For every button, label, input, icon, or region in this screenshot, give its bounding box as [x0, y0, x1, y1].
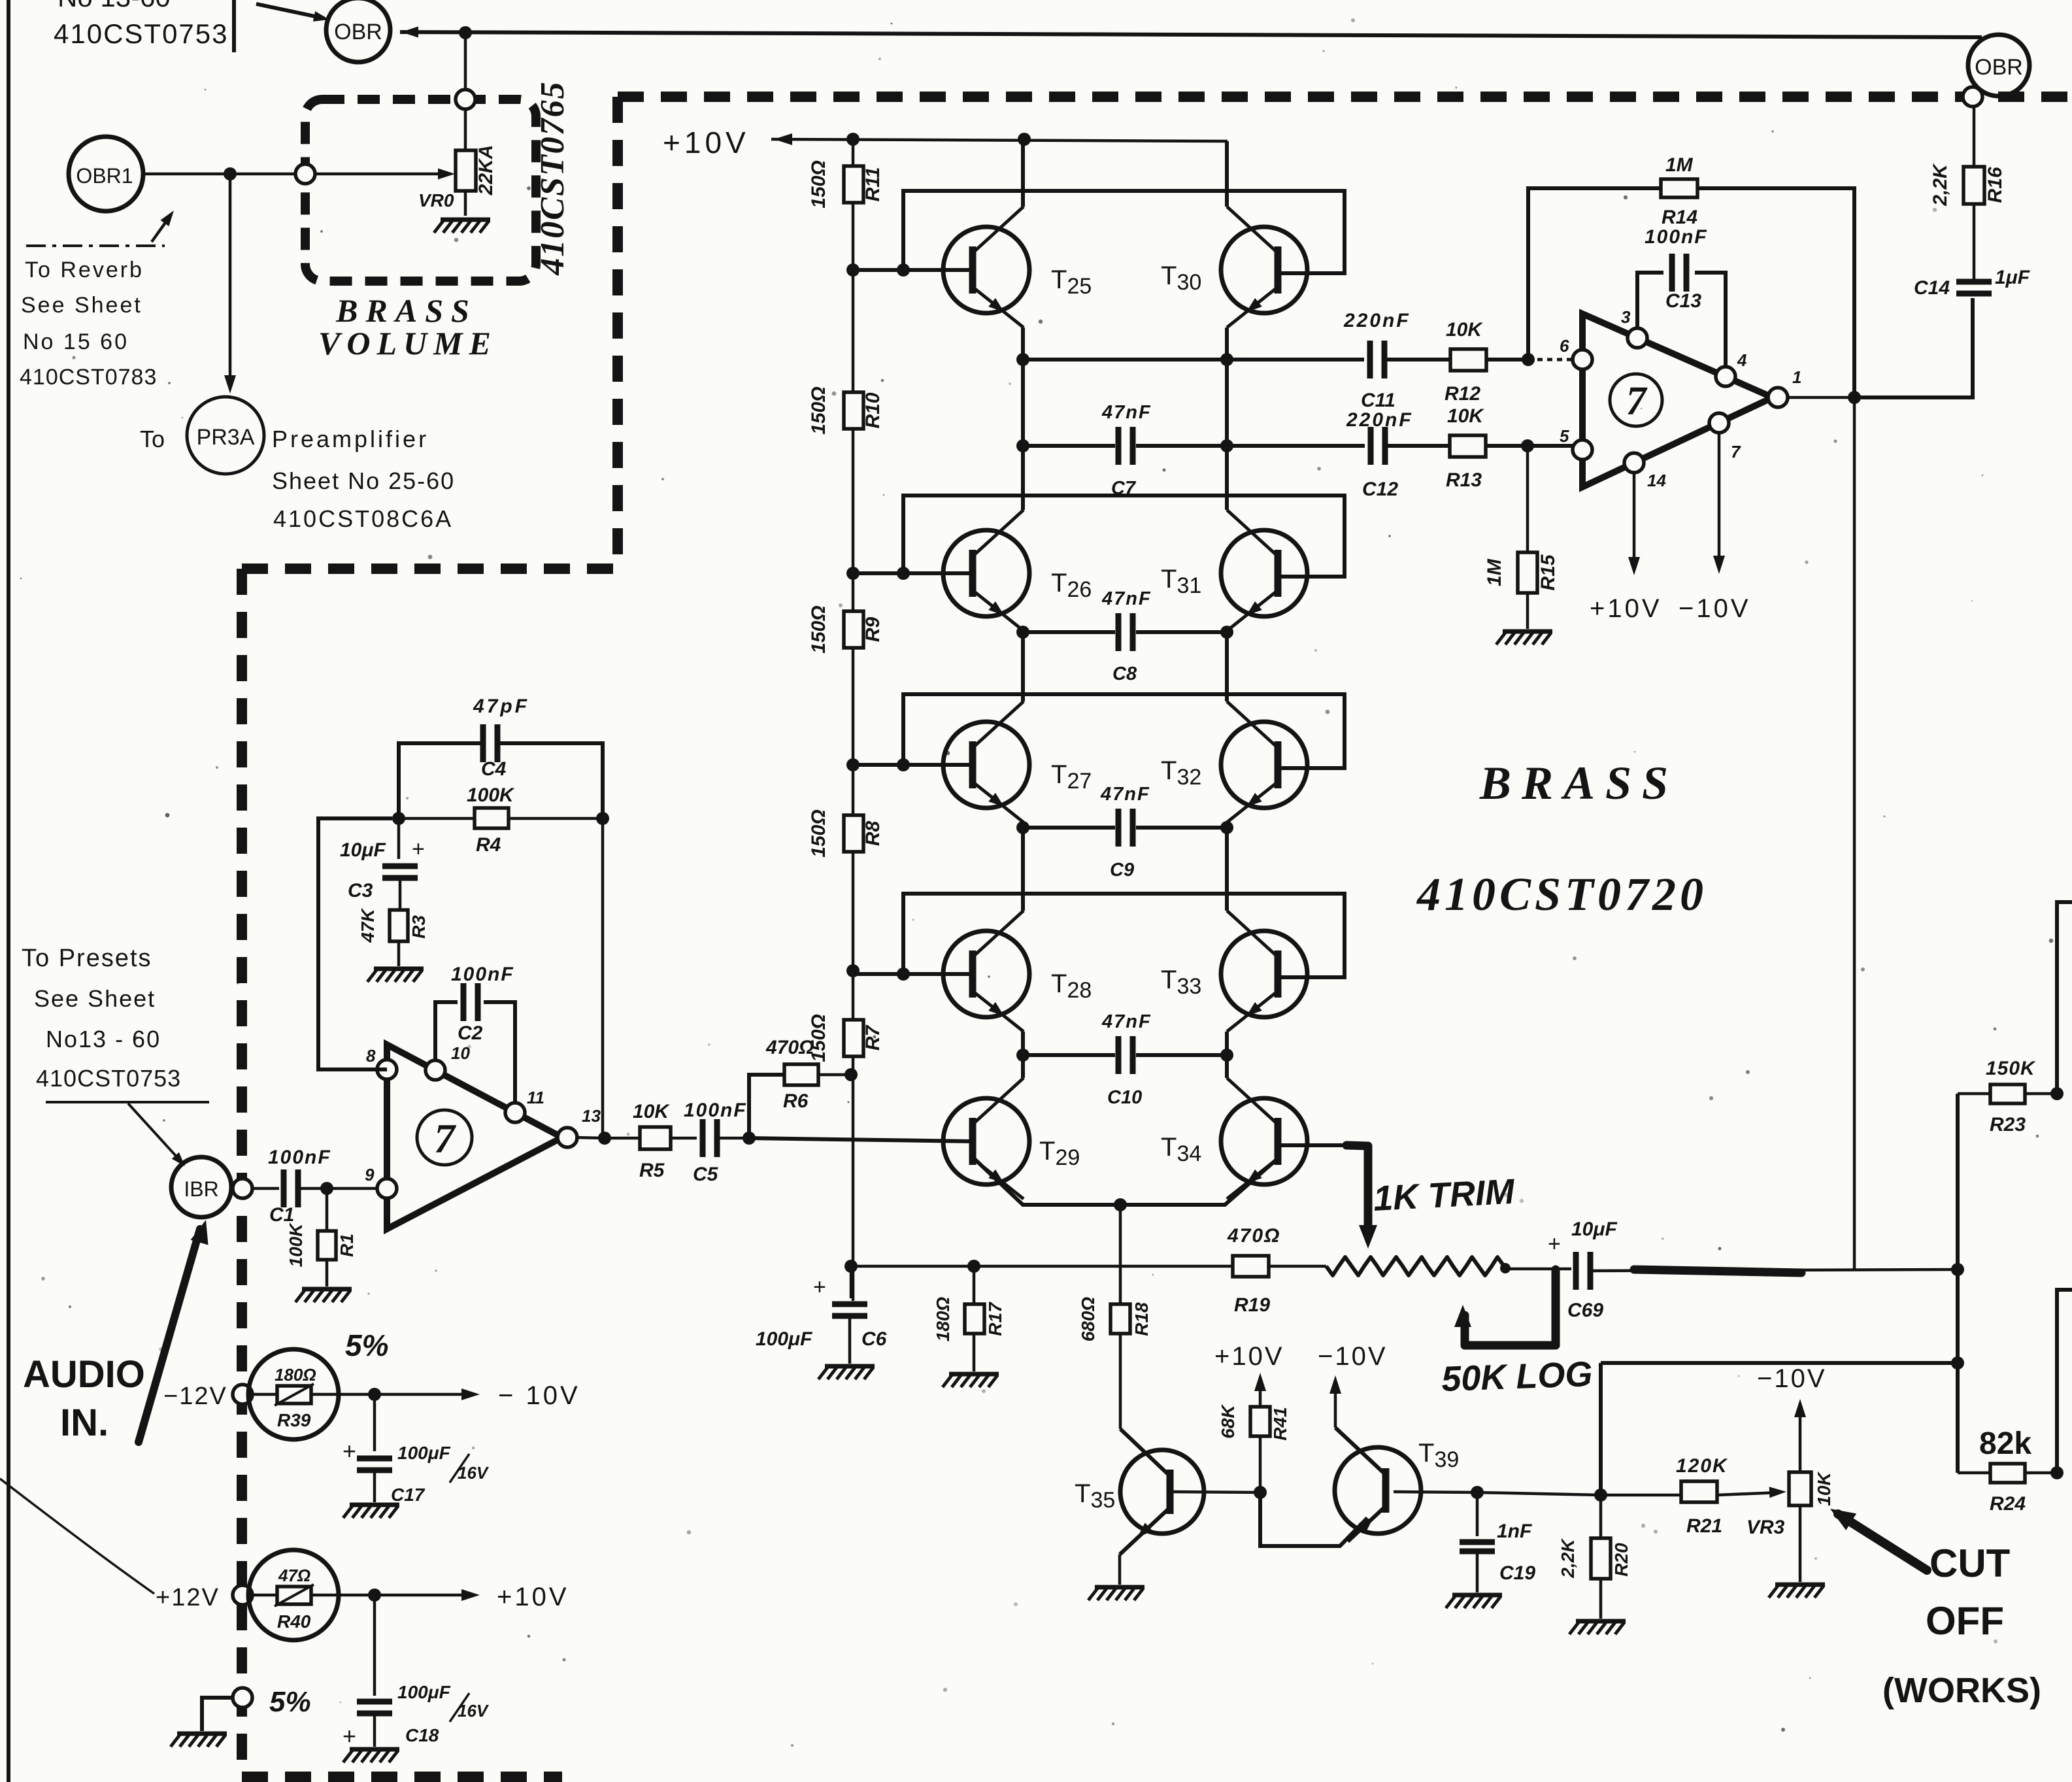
connector circle +12V on dashed boundary	[233, 1585, 252, 1605]
resistor R39 180Ω 5% (circled)	[248, 1349, 375, 1439]
dashed enclosure BRASS VOLUME (410CST0765)	[305, 99, 536, 281]
capacitor C6 100uF electrolytic	[756, 1266, 887, 1364]
dashed boundary top segment	[618, 92, 2072, 102]
wire C2 bracket	[435, 1002, 515, 1104]
junction base row1	[897, 263, 910, 277]
svg-text:7: 7	[1626, 379, 1648, 424]
wire op-amp U2 supply pin14	[1633, 471, 1636, 570]
svg-text:No13 - 60: No13 - 60	[46, 1026, 161, 1052]
ground below R3	[367, 969, 424, 982]
svg-text:14: 14	[1647, 471, 1666, 490]
svg-text:C1: C1	[269, 1204, 294, 1226]
resistor R20 2.2K	[1558, 1495, 1631, 1619]
svg-text:OBR1: OBR1	[76, 164, 133, 188]
svg-text:410CST0720: 410CST0720	[1416, 868, 1707, 920]
svg-text:82k: 82k	[1979, 1426, 2031, 1461]
wire VR3 to ground	[1799, 1505, 1802, 1582]
op-amp U2 pin 4	[1716, 367, 1735, 386]
wire left column segment 4	[1021, 822, 1025, 911]
svg-text:PR3A: PR3A	[197, 425, 255, 450]
svg-text:180Ω: 180Ω	[933, 1297, 953, 1342]
resistor R17 180Ω	[933, 1266, 1005, 1371]
wire row4 W4 left	[1023, 826, 1115, 830]
svg-text:1M: 1M	[1484, 558, 1505, 586]
svg-text:5%: 5%	[345, 1328, 388, 1362]
ground below T35	[1088, 1587, 1145, 1600]
wire rail segment c	[852, 429, 855, 611]
svg-text:470Ω: 470Ω	[765, 1037, 814, 1058]
op-amp U2 pin 7	[1709, 413, 1729, 433]
resistor R3 47K	[358, 908, 429, 966]
wire R23 up to edge	[2057, 902, 2072, 1094]
wire R23 left drop	[1956, 1094, 1960, 1473]
wire signal to T29 base	[749, 1138, 973, 1141]
ground below C6	[818, 1366, 875, 1379]
junction feedback tap pin6	[1522, 353, 1535, 366]
junction R4 right node	[596, 812, 609, 825]
junction base row2	[897, 567, 910, 580]
resistor R12 10K	[1445, 319, 1528, 405]
svg-text:10μF: 10μF	[340, 839, 386, 861]
annotation CUT OFF arrow	[1838, 1514, 1927, 1570]
svg-text:R21: R21	[1686, 1515, 1722, 1537]
resistor R5 10K	[633, 1101, 697, 1181]
svg-text:8: 8	[366, 1046, 376, 1066]
wire rail segment a	[852, 139, 855, 166]
svg-text:VOLUME: VOLUME	[318, 325, 497, 361]
capacitor C2 100nF	[451, 964, 514, 1044]
wire rail segment d	[852, 648, 855, 815]
wire right column segment 3	[1225, 631, 1229, 701]
dashed boundary vertical segment x=370	[237, 569, 247, 1777]
op-amp U1 pin 8	[377, 1060, 397, 1079]
op-amp U1 triangle	[387, 1045, 562, 1229]
annotation 1K TRIM arrow from T34 base	[1346, 1145, 1368, 1233]
svg-text:410CST0753: 410CST0753	[36, 1065, 181, 1092]
junction +10V at rail	[846, 133, 860, 146]
svg-text:R8: R8	[862, 821, 884, 847]
junction rail at bottom wire	[844, 1260, 858, 1273]
capacitor C18 100uF electrolytic	[343, 1595, 490, 1749]
wire C19 node to R20 node	[1477, 1492, 1601, 1495]
svg-text:OBR: OBR	[334, 20, 382, 44]
svg-text:C18: C18	[405, 1725, 439, 1745]
svg-text:C14: C14	[1914, 277, 1950, 299]
svg-text:150Ω: 150Ω	[808, 386, 829, 434]
wire rail segment b	[852, 203, 855, 392]
svg-text:100μF: 100μF	[397, 1682, 451, 1702]
capacitor C14 1uF	[1914, 204, 2030, 299]
capacitor C19 1nF	[1460, 1492, 1535, 1592]
potentiometer VR3 10K	[1746, 1471, 1834, 1538]
svg-text:7: 7	[434, 1115, 457, 1162]
junction on OBR1 wire	[224, 167, 237, 180]
wire left column segment 5	[1021, 1032, 1025, 1078]
svg-text:R14: R14	[1662, 207, 1697, 228]
wire right column segment 2	[1225, 328, 1229, 510]
svg-text:4: 4	[1737, 350, 1747, 370]
svg-text:+: +	[813, 1275, 826, 1300]
junction C69 net at column	[1951, 1263, 1964, 1276]
transistor T25	[943, 207, 1029, 328]
resistor R24 82K	[1958, 1464, 2057, 1515]
svg-text:No 13-60: No 13-60	[58, 0, 171, 12]
svg-text:220nF: 220nF	[1346, 409, 1413, 431]
wire row3 W3 left	[1023, 630, 1115, 634]
wire array bottom	[851, 1265, 1233, 1268]
wire cross-coupling row1	[903, 191, 1345, 273]
svg-text:IN.: IN.	[60, 1402, 109, 1444]
op-amp U2 pin 6	[1573, 350, 1592, 369]
junction rail row2	[846, 567, 860, 580]
ground below R17	[943, 1374, 999, 1387]
svg-text:1nF: 1nF	[1497, 1521, 1532, 1542]
wire op-amp U2 output	[1786, 396, 1854, 399]
svg-text:R1: R1	[337, 1234, 357, 1257]
svg-text:47nF: 47nF	[1101, 1011, 1152, 1032]
wire dash to pin 6	[1537, 358, 1573, 361]
transistor T35	[1120, 1429, 1204, 1555]
resistor R4 100K	[399, 784, 603, 856]
svg-text:R16: R16	[1984, 167, 2006, 203]
capacitor C7 47nF	[1101, 402, 1227, 499]
resistor R10 150Ω	[808, 386, 884, 434]
svg-text:Sheet No 25-60: Sheet No 25-60	[272, 467, 455, 494]
resistor R21 120K	[1676, 1455, 1728, 1537]
svg-text:180Ω: 180Ω	[275, 1365, 316, 1385]
wire R21 to VR3 wiper	[1717, 1492, 1780, 1495]
svg-text:10K: 10K	[633, 1101, 670, 1122]
wire OBR1 to VR0 wiper	[144, 173, 451, 176]
svg-text:C5: C5	[693, 1164, 719, 1185]
connector circle on box top edge	[456, 90, 475, 109]
capacitor C12 220nF	[1346, 409, 1450, 500]
svg-text:R9: R9	[862, 617, 884, 643]
svg-text:120K: 120K	[1676, 1455, 1728, 1477]
junction output C4 node	[598, 1132, 611, 1145]
svg-text:150K: 150K	[1986, 1058, 2036, 1079]
wire op-amp U1 output	[575, 1137, 605, 1138]
svg-text:+10V: +10V	[1214, 1342, 1284, 1371]
junction R15 tap pin5	[1521, 439, 1534, 452]
transistor T26	[943, 510, 1029, 631]
svg-text:50K LOG: 50K LOG	[1441, 1354, 1593, 1399]
connector circle on dashed boundary (OBR drop)	[1963, 87, 1982, 107]
svg-text:R17: R17	[985, 1302, 1005, 1336]
svg-text:7: 7	[1731, 442, 1741, 462]
transistor T29	[943, 1078, 1029, 1199]
capacitor C17 100uF electrolytic	[343, 1394, 490, 1505]
junction R4 left node	[392, 812, 405, 825]
junction left column W4	[1016, 821, 1029, 834]
svg-text:+10V: +10V	[1590, 594, 1662, 623]
svg-text:9: 9	[365, 1165, 375, 1185]
svg-text:13: 13	[582, 1106, 601, 1126]
wire IBR to C1	[251, 1187, 279, 1190]
op-amp U2 pin 5	[1573, 440, 1592, 460]
transistor T28	[943, 911, 1029, 1032]
capacitor C8 47nF	[1101, 588, 1227, 684]
wire right column segment 1	[1225, 141, 1229, 207]
junction left column W5	[1016, 1049, 1029, 1062]
svg-text:See Sheet: See Sheet	[34, 985, 156, 1012]
svg-text:470Ω: 470Ω	[1227, 1225, 1280, 1247]
svg-text:To Presets: To Presets	[22, 945, 152, 972]
top-left text block: sheet reference No 13-60 / 410CST0753	[54, 0, 229, 49]
svg-text:(WORKS): (WORKS)	[1882, 1671, 2041, 1710]
transistor T34	[1221, 1078, 1307, 1199]
junction wiper net column	[1951, 1356, 1964, 1370]
svg-text:−10V: −10V	[1679, 594, 1751, 623]
junction rail row1	[846, 263, 860, 277]
svg-text:C8: C8	[1112, 664, 1137, 684]
svg-text:C12: C12	[1362, 479, 1398, 500]
resistor R15 1M	[1484, 450, 1559, 629]
junction right column W2	[1220, 439, 1233, 452]
svg-text:68K: 68K	[1218, 1404, 1238, 1439]
annotation label CUT OFF (WORKS)	[1882, 1541, 2041, 1710]
svg-text:100K: 100K	[286, 1222, 306, 1268]
wire R6 branch	[749, 1075, 784, 1138]
wire ground link	[202, 1698, 234, 1731]
ground at boundary link	[171, 1734, 227, 1747]
arrow from To-Presets rule to IBR	[128, 1103, 182, 1162]
svg-text:47K: 47K	[358, 908, 378, 943]
svg-text:R39: R39	[277, 1410, 311, 1430]
arrow from OBR1 wire down to PR3A	[229, 174, 232, 388]
svg-text:10μF: 10μF	[1571, 1219, 1617, 1240]
node OBR (top-left connector circle)	[326, 0, 390, 62]
svg-text:3: 3	[1621, 307, 1631, 327]
junction R20 node	[1594, 1488, 1607, 1502]
wire base row3 left	[853, 763, 973, 767]
wire T34 base stub	[1279, 1143, 1363, 1147]
svg-text:C6: C6	[861, 1328, 887, 1350]
junction right column W3	[1220, 626, 1233, 639]
wire +10V feed	[771, 139, 1228, 141]
svg-text:No 15 60: No 15 60	[23, 329, 129, 354]
wire T35 base to node	[1170, 1492, 1260, 1492]
junction right column W5	[1220, 1049, 1233, 1062]
svg-text:150Ω: 150Ω	[808, 605, 829, 653]
svg-text:22KA: 22KA	[475, 145, 497, 196]
wire from top link down to VR0	[464, 33, 467, 150]
trim pot right terminal	[1500, 1263, 1511, 1273]
svg-text:47nF: 47nF	[1100, 784, 1150, 805]
wire left column segment 2	[1021, 328, 1025, 510]
capacitor C11 220nF	[1343, 310, 1450, 411]
annotation 50K LOG wiper arrow	[1461, 1315, 1469, 1345]
svg-text:410CST0765: 410CST0765	[534, 80, 571, 275]
transistor T39	[1335, 1428, 1421, 1541]
transistor T31	[1221, 510, 1307, 631]
svg-text:−10V: −10V	[1757, 1364, 1827, 1393]
wire C69 to output node	[1590, 1269, 1958, 1271]
svg-text:410CST0783: 410CST0783	[20, 365, 157, 390]
wire base row1 left	[853, 268, 973, 272]
ground below C17	[343, 1505, 399, 1518]
junction C5 out node	[743, 1132, 756, 1145]
svg-text:2,2K: 2,2K	[1558, 1538, 1578, 1579]
svg-text:5%: 5%	[269, 1686, 311, 1718]
op-amp U1 pin 13	[558, 1128, 577, 1147]
wire feedback R14 loop	[1528, 188, 1854, 392]
junction rail row4	[846, 964, 860, 977]
svg-text:47pF: 47pF	[473, 696, 529, 717]
junction right column W1	[1220, 353, 1233, 366]
svg-text:R13: R13	[1446, 469, 1482, 491]
svg-text:47nF: 47nF	[1101, 402, 1152, 423]
capacitor C9 47nF	[1100, 784, 1227, 881]
svg-text:+: +	[343, 1723, 356, 1749]
svg-text:C69: C69	[1567, 1300, 1603, 1321]
resistor R14 1M	[1661, 154, 1697, 228]
svg-text:1K TRIM: 1K TRIM	[1372, 1172, 1516, 1219]
transistor T32	[1221, 701, 1307, 822]
resistor R23 150K	[1958, 1058, 2057, 1135]
junction right column W4	[1220, 821, 1233, 834]
op-amp U2 pin 14	[1624, 453, 1644, 473]
svg-text:10K: 10K	[1814, 1471, 1834, 1506]
dashed boundary horizontal segment y=870	[242, 563, 618, 574]
junction -10V node	[368, 1388, 381, 1401]
junction R23 right	[2050, 1087, 2064, 1100]
label block To Reverb sheet reference	[20, 246, 165, 390]
svg-text:R24: R24	[1990, 1493, 2026, 1515]
wire left column segment 1	[1021, 139, 1025, 207]
label Preamplifier block	[272, 426, 455, 532]
svg-text:R15: R15	[1537, 554, 1559, 590]
wire cross-coupling row4	[903, 894, 1345, 977]
op-amp U1 pin 11	[505, 1103, 525, 1122]
svg-text:1μF: 1μF	[1995, 267, 2030, 288]
svg-text:C13: C13	[1665, 290, 1701, 312]
op-amp U1 pin 9	[377, 1179, 397, 1198]
junction C1 R1	[320, 1182, 333, 1195]
potentiometer 1K TRIM (50K LOG) zigzag	[1326, 1257, 1504, 1275]
svg-text:R10: R10	[862, 392, 884, 428]
svg-text:47Ω: 47Ω	[278, 1566, 310, 1585]
wire T39 collector to -10V	[1334, 1381, 1337, 1428]
junction on top link wire	[459, 26, 472, 39]
wire output to R5	[605, 1137, 640, 1140]
wire rail segment f	[852, 1056, 855, 1301]
wire 50K wiper net to R23/R24 column	[1601, 1361, 1958, 1365]
ground below C19	[1446, 1595, 1502, 1608]
svg-text:C10: C10	[1107, 1087, 1142, 1108]
op-amp U1 pin 10	[426, 1060, 445, 1080]
wire cross-coupling row2	[903, 496, 1345, 577]
connector circle -12V on dashed boundary	[233, 1385, 252, 1404]
ground below R20	[1569, 1621, 1626, 1634]
dashed boundary vertical segment x=945	[612, 97, 623, 569]
potentiometer VR0 22KA	[418, 145, 497, 216]
svg-text:C2: C2	[458, 1022, 483, 1044]
svg-text:BRASS: BRASS	[1479, 757, 1679, 809]
svg-text:5: 5	[1560, 426, 1569, 446]
svg-text:R19: R19	[1234, 1294, 1270, 1316]
capacitor C5 100nF	[684, 1100, 749, 1185]
svg-text:R5: R5	[639, 1160, 665, 1181]
svg-text:Preamplifier: Preamplifier	[272, 426, 429, 452]
wire +10V out	[375, 1594, 475, 1597]
junction base row3	[897, 758, 910, 771]
svg-text:R40: R40	[277, 1611, 311, 1632]
svg-text:C3: C3	[348, 880, 373, 901]
resistor R7 150Ω	[808, 1014, 884, 1062]
svg-text:IBR: IBR	[184, 1177, 218, 1201]
resistor R41 68K	[1218, 1373, 1290, 1492]
svg-text:47nF: 47nF	[1101, 588, 1152, 609]
arrow from sheet ref to node OBR	[256, 4, 324, 18]
junction left column W2	[1016, 439, 1029, 452]
svg-text:+: +	[1548, 1232, 1561, 1256]
svg-text:100μF: 100μF	[756, 1328, 812, 1350]
svg-text:C11: C11	[1361, 390, 1395, 411]
svg-text:100nF: 100nF	[451, 964, 514, 985]
svg-text:−12V: −12V	[163, 1383, 227, 1410]
resistor R8 150Ω	[808, 809, 884, 857]
capacitor C69 10uF	[1548, 1219, 1617, 1321]
svg-text:220nF: 220nF	[1343, 310, 1411, 331]
junction R24 right	[2050, 1466, 2064, 1479]
transistor T33	[1221, 911, 1307, 1032]
svg-text:R7: R7	[862, 1025, 884, 1051]
wire R24 up to edge	[2057, 1290, 2072, 1473]
svg-text:100μF: 100μF	[397, 1443, 451, 1463]
svg-text:VR3: VR3	[1746, 1517, 1785, 1538]
svg-text:10K: 10K	[1447, 405, 1484, 427]
svg-text:C9: C9	[1110, 860, 1134, 881]
connector circle on box left edge	[295, 164, 315, 184]
op-amp U2 triangle	[1582, 314, 1773, 487]
stray pen curve bottom-left	[0, 1479, 154, 1594]
ground below R15	[1496, 631, 1552, 645]
transistor T30	[1221, 207, 1307, 328]
svg-text:R23: R23	[1990, 1114, 2026, 1135]
svg-text:150Ω: 150Ω	[808, 809, 829, 857]
wire -10V out	[375, 1393, 475, 1396]
junction C19 node	[1471, 1486, 1484, 1499]
resistor R40 47Ω 5% (circled)	[248, 1550, 375, 1640]
svg-text:C17: C17	[391, 1485, 426, 1505]
wire T35 collector to R18	[1119, 1428, 1122, 1429]
wire pin8 loop to R4 node	[318, 818, 392, 1069]
svg-text:10K: 10K	[1446, 319, 1483, 341]
svg-text:R11: R11	[862, 167, 884, 202]
svg-text:+10V: +10V	[497, 1583, 569, 1611]
svg-text:+: +	[343, 1437, 356, 1464]
svg-text:+12V: +12V	[156, 1584, 220, 1611]
wire base row2 left	[853, 571, 973, 575]
wire right column segment 4	[1225, 822, 1229, 911]
svg-text:R12: R12	[1445, 383, 1480, 405]
transistor T27	[943, 701, 1029, 822]
wire top link OBR to OBR	[400, 32, 1982, 37]
svg-text:+10V: +10V	[663, 126, 750, 160]
op-amp U2 symbol 7	[1610, 374, 1662, 426]
wire left column segment 3	[1021, 631, 1025, 701]
junction base row4	[897, 967, 910, 981]
svg-text:1: 1	[1792, 367, 1801, 387]
wire C4 bracket	[399, 743, 603, 818]
wire output down to C69 row	[1853, 397, 1856, 1271]
wire T39 base out	[1394, 1492, 1477, 1492]
wire output to C14 branch	[1854, 298, 1973, 397]
wire op-amp U2 supply pin7	[1718, 431, 1721, 569]
wire R4 node down to output node	[601, 818, 605, 1139]
svg-text:R6: R6	[783, 1090, 809, 1112]
